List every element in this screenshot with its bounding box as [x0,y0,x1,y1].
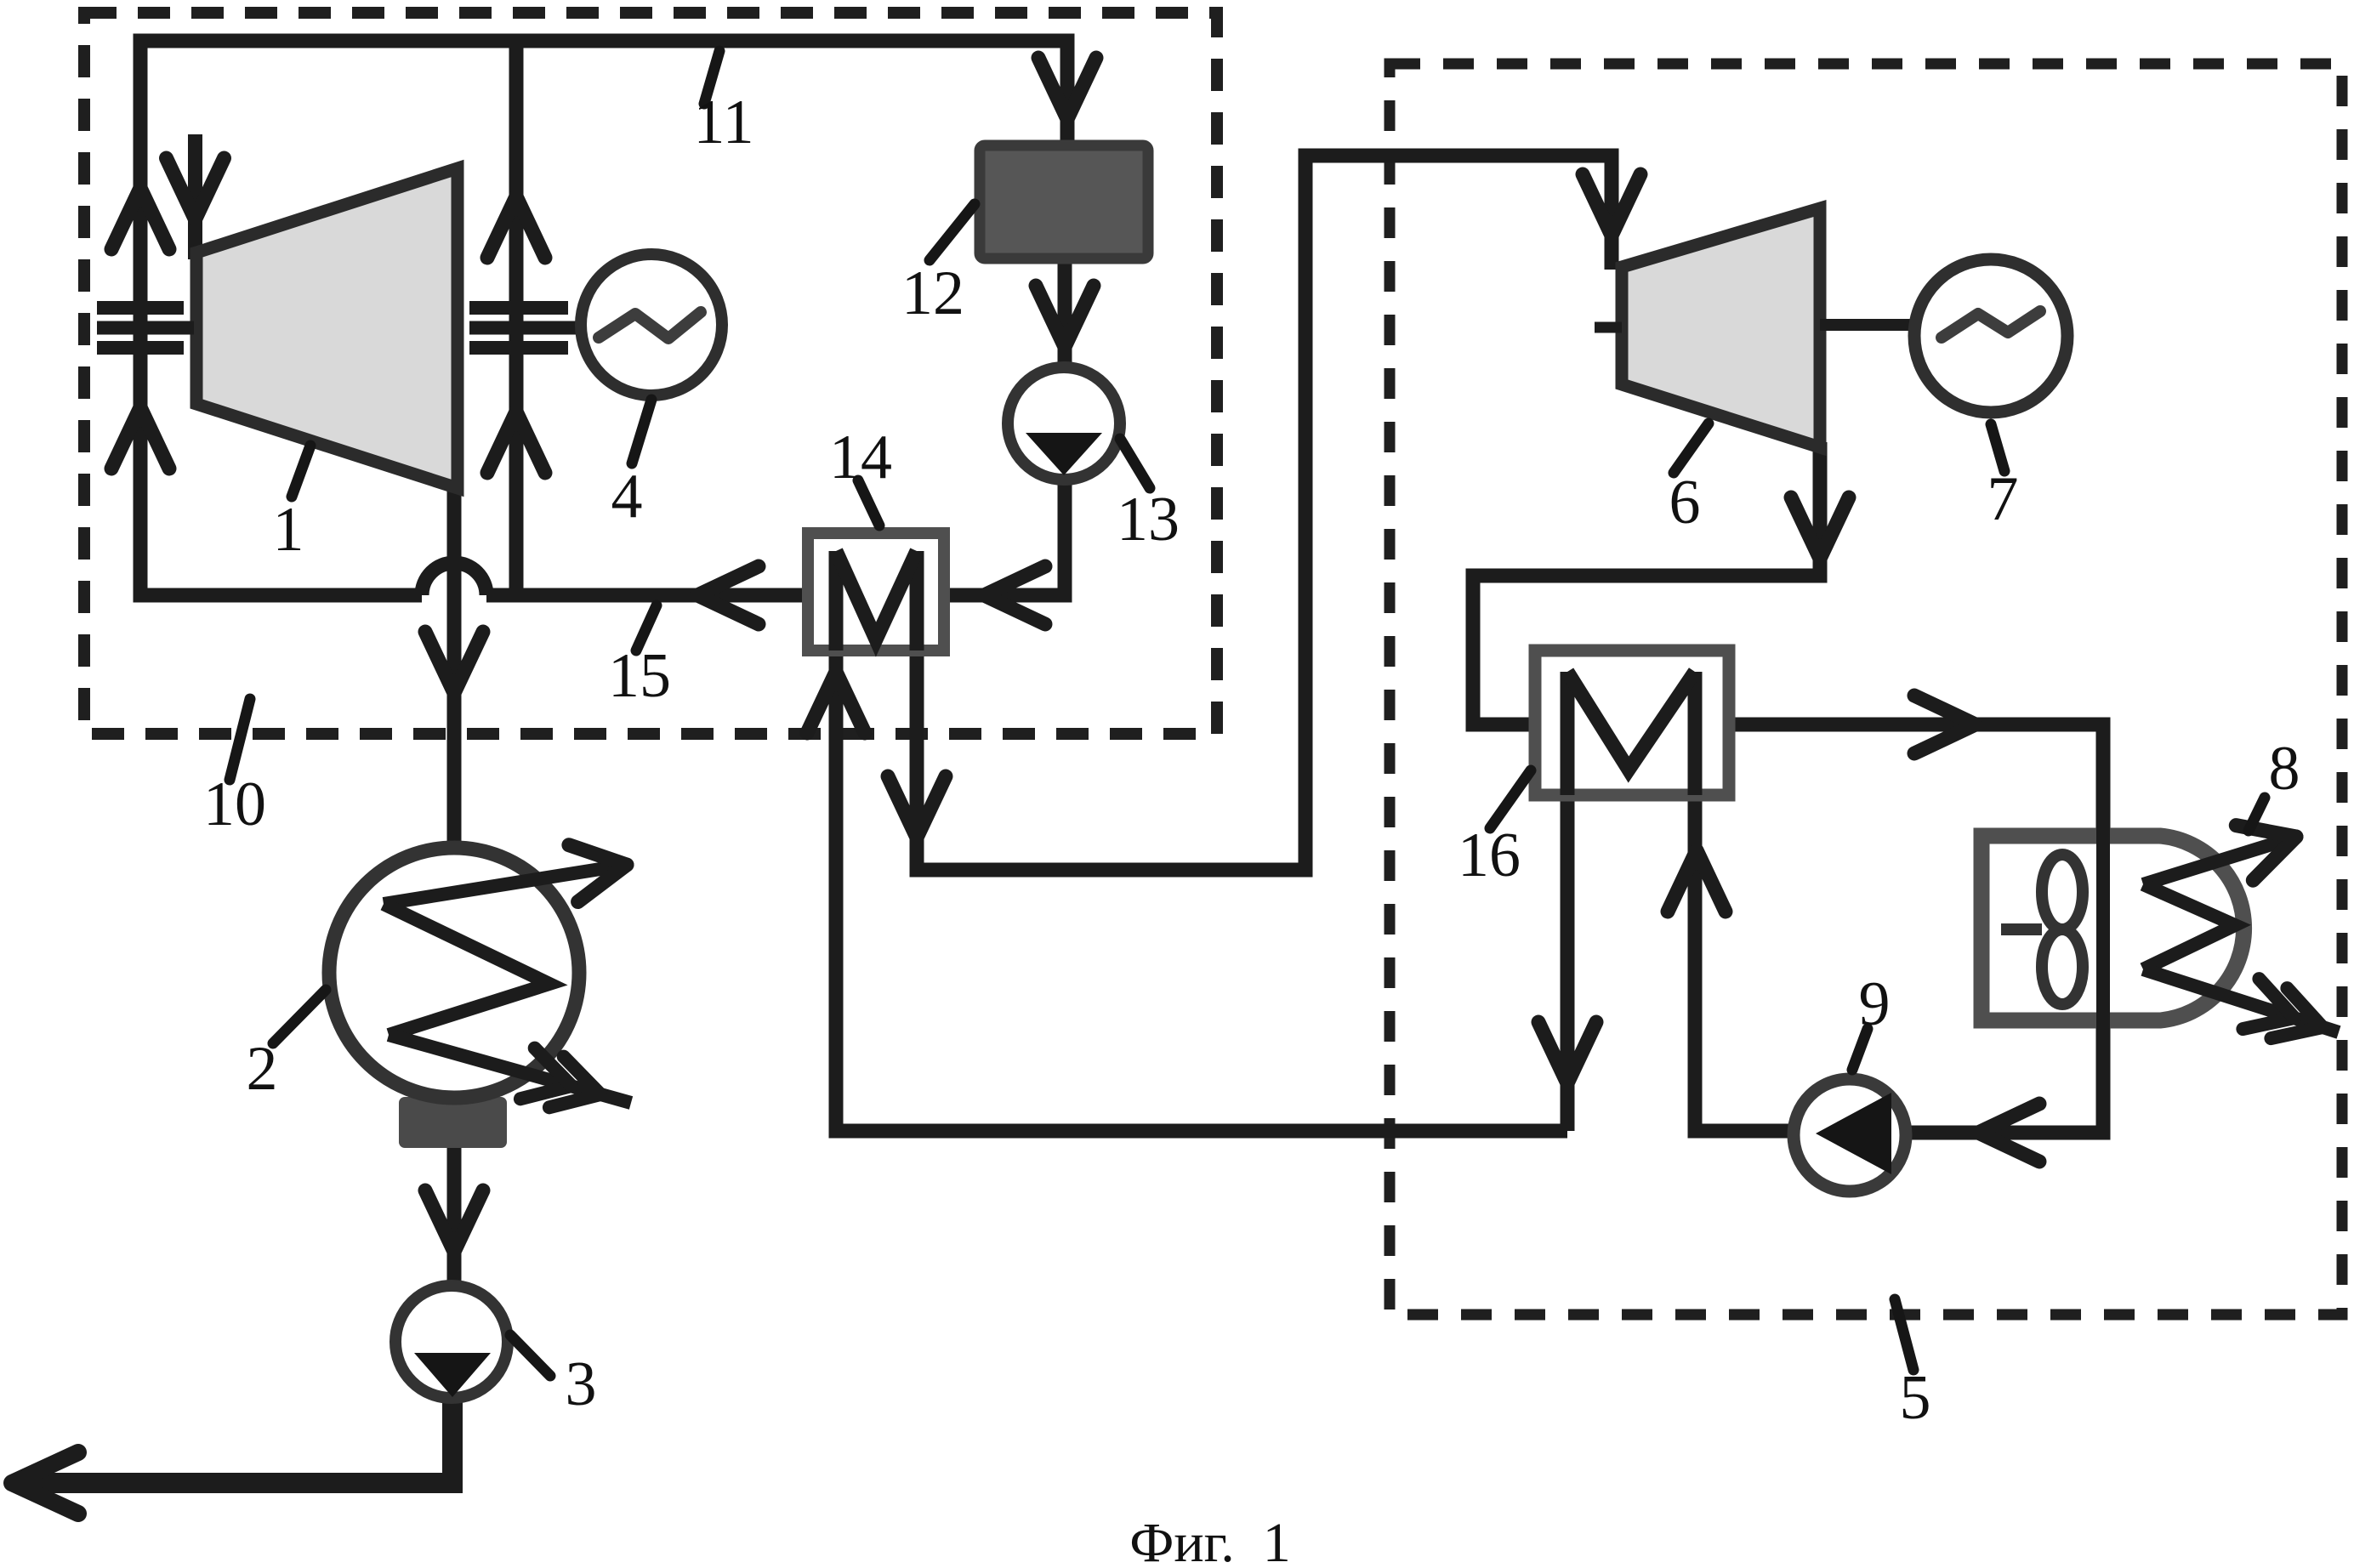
svg-text:1: 1 [273,495,304,565]
svg-text:8: 8 [2269,734,2300,804]
svg-text:13: 13 [1117,485,1180,554]
svg-text:6: 6 [1669,468,1701,537]
svg-text:16: 16 [1458,821,1521,890]
svg-text:9: 9 [1859,969,1891,1039]
svg-text:2: 2 [247,1034,278,1104]
svg-text:14: 14 [829,423,892,492]
svg-text:12: 12 [901,258,964,328]
svg-text:11: 11 [693,88,753,157]
svg-text:5: 5 [1900,1363,1931,1433]
svg-text:3: 3 [566,1349,597,1419]
svg-text:7: 7 [1987,464,2019,534]
svg-text:10: 10 [203,770,266,839]
svg-text:15: 15 [608,641,671,711]
svg-text:4: 4 [611,462,643,531]
svg-text:Фиг. 1: Фиг. 1 [1129,1512,1291,1568]
